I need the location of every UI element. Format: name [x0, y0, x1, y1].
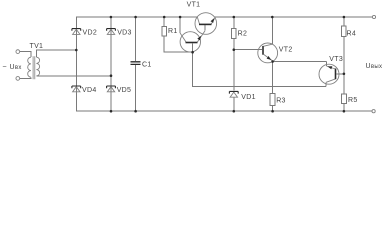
svg-text:~: ~ — [3, 64, 7, 71]
driver emitter lead — [197, 31, 205, 42]
zener diode VD1 triangle — [230, 92, 237, 97]
driver collector lead diagonal — [180, 33, 186, 42]
svg-text:C1: C1 — [142, 62, 152, 69]
wire bottom rail — [76, 110, 372, 112]
input terminal top — [16, 50, 20, 54]
wire top rail left segment — [76, 16, 197, 18]
wire R3 bottom lead — [272, 106, 274, 112]
svg-text:VD2: VD2 — [83, 30, 98, 37]
wire R1 branch — [164, 17, 192, 52]
transistor VT1 collector lead — [197, 17, 199, 24]
driver transistor base bar — [186, 42, 198, 44]
resistor R1 body — [162, 26, 166, 36]
svg-text:Uвых: Uвых — [366, 63, 382, 70]
wire base drive line — [193, 44, 327, 87]
transistor VT2 emitter arrow — [267, 56, 272, 60]
transistor VT3 emitter diagonal — [326, 66, 335, 69]
wire VT2 emitter node — [273, 62, 327, 94]
junction node top rail VD3 — [110, 16, 113, 19]
transistor VT1 base bar — [199, 23, 212, 25]
zener VD1 cathode bar — [229, 91, 238, 93]
svg-text:R5: R5 — [348, 97, 358, 104]
svg-text:VT3: VT3 — [329, 56, 343, 63]
wire VT1 base vertical — [204, 25, 206, 31]
junction node top rail VT2 collector — [271, 16, 274, 19]
svg-text:VD3: VD3 — [117, 30, 132, 37]
svg-text:Uвх: Uвх — [10, 64, 22, 71]
diode VD2 cathode bar — [72, 29, 81, 31]
transistor VT2 circle — [258, 43, 278, 63]
resistor R5 body — [342, 94, 347, 104]
wire input bottom lead — [20, 77, 31, 80]
junction node secondary bottom — [110, 74, 113, 77]
junction node top rail R2 — [233, 16, 236, 19]
diode VD2 triangle — [73, 29, 80, 34]
svg-text:R1: R1 — [168, 28, 178, 35]
wire right bridge branch — [110, 17, 112, 111]
junction node VT3 base divider — [343, 73, 346, 76]
diode VD4 triangle — [73, 87, 80, 92]
transformer TV1 primary winding — [28, 57, 31, 77]
svg-text:VD4: VD4 — [82, 87, 97, 94]
svg-text:R3: R3 — [276, 98, 286, 105]
output terminal top — [372, 15, 375, 18]
transistor VT1 driver circle — [180, 32, 200, 52]
wire C1 branch lower — [135, 65, 137, 111]
junction node bottom rail R3 — [271, 110, 274, 113]
transistor VT2 collector diagonal — [264, 44, 273, 46]
wire C1 branch upper — [135, 17, 137, 61]
svg-text:VD5: VD5 — [117, 87, 132, 94]
resistor R3 body — [270, 94, 275, 106]
wire VT2 base — [234, 49, 262, 51]
transformer TV1 secondary winding — [36, 57, 39, 76]
transistor VT1 emitter arrow — [211, 18, 215, 23]
svg-text:R2: R2 — [238, 31, 248, 38]
svg-text:TV1: TV1 — [30, 43, 44, 50]
output terminal bottom — [372, 110, 375, 113]
capacitor C1 plates — [131, 62, 141, 65]
diode VD3 cathode bar — [107, 29, 116, 31]
junction node bottom rail VD5 — [110, 110, 113, 113]
junction node R1 base — [191, 51, 194, 54]
junction node top rail driver collector — [179, 16, 182, 19]
wire input top lead — [20, 52, 31, 58]
junction node bottom rail C1 — [134, 110, 137, 113]
diode VD4 cathode bar — [72, 86, 81, 88]
transistor VT3 base bar — [335, 69, 337, 80]
junction node bottom rail VD1 — [233, 110, 236, 113]
transistor VT1 circle — [195, 13, 217, 35]
wire R4 R5 branch — [343, 17, 345, 111]
wire secondary bottom to bridge — [36, 75, 111, 77]
wire VT2 collector vertical — [271, 17, 273, 44]
transistor VT1 emitter lead — [211, 17, 215, 24]
resistor R2 body — [232, 28, 237, 38]
wire VT3 collector stub — [325, 82, 327, 86]
svg-text:VD1: VD1 — [241, 94, 256, 101]
diode VD5 triangle — [107, 87, 114, 92]
wire left bridge branch — [75, 17, 77, 111]
junction node top rail R4 — [343, 16, 346, 19]
resistor R4 body — [342, 26, 347, 36]
wire VT3 base — [336, 73, 344, 75]
junction node bottom rail R5 — [343, 110, 346, 113]
diode VD3 triangle — [107, 29, 114, 34]
transistor VT2 emitter lead — [264, 55, 273, 62]
junction node VT2 base R2 — [233, 48, 236, 51]
wire driver collector vertical — [179, 17, 181, 33]
wire R2 VD1 branch — [233, 17, 235, 111]
transformer TV1 core — [33, 56, 35, 79]
driver emitter arrow — [197, 36, 201, 41]
diode VD5 cathode bar — [107, 86, 116, 88]
transistor VT3 circle — [319, 64, 339, 84]
junction node secondary top — [75, 49, 78, 52]
junction node VT2 emitter — [271, 60, 274, 63]
transistor VT2 base bar — [262, 46, 264, 55]
junction node top rail R1 — [163, 16, 166, 19]
wire VT3 emitter stub — [325, 62, 327, 67]
wire top rail right segment — [215, 16, 373, 18]
input terminal bottom — [16, 77, 20, 81]
junction node top rail C1 — [134, 16, 137, 19]
wire secondary top to bridge — [36, 50, 76, 57]
svg-text:R4: R4 — [347, 31, 357, 38]
transistor VT3 collector diagonal — [326, 79, 335, 82]
svg-text:VT2: VT2 — [279, 47, 293, 54]
svg-text:VT1: VT1 — [187, 2, 201, 9]
transistor VT3 emitter arrow — [327, 66, 332, 69]
